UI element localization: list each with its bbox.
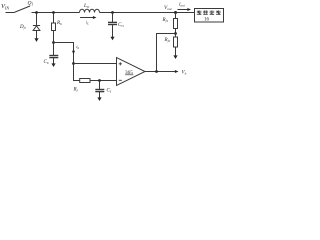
wire top rail left	[32, 12, 80, 14]
resistor Rb	[52, 13, 56, 43]
current arrow ib	[72, 51, 75, 55]
svg-text:CO: CO	[118, 23, 124, 28]
load box	[195, 9, 224, 23]
svg-text:LO: LO	[83, 4, 90, 9]
load box text: hand-drawn hanzi 输出负载 + 16	[197, 10, 221, 14]
resistor Rf1	[174, 13, 178, 34]
ground (under diode)	[34, 38, 38, 42]
svg-text:Cb: Cb	[44, 60, 49, 65]
transistor Q1 label	[28, 1, 34, 7]
wire branch Rb node to comparator input	[54, 43, 74, 64]
junction dot (divider tap on rail)	[174, 11, 177, 14]
diode Dfl	[33, 13, 40, 39]
junction node (Rb bottom)	[52, 41, 55, 44]
resistor Rb label	[56, 21, 62, 26]
transistor Q1 switch blade	[14, 6, 30, 13]
resistor Rf2	[174, 34, 178, 56]
capacitor Cb	[49, 43, 58, 64]
junction node (Cf tap)	[98, 79, 101, 82]
current arrow Iout	[178, 8, 192, 11]
ground (under Rf2)	[173, 55, 177, 59]
capacitor Cb label	[44, 60, 49, 65]
wire inverting input	[90, 80, 117, 82]
wire noninverting input	[74, 63, 117, 65]
wire top rail right	[100, 12, 196, 14]
junction node (divider mid)	[174, 32, 177, 35]
junction dot (Rb branch)	[52, 11, 55, 14]
node Vin label	[1, 3, 9, 11]
svg-text:16: 16	[204, 18, 209, 23]
inductor Lo label	[83, 4, 90, 9]
resistor Rf label	[73, 88, 79, 93]
svg-text:Rb: Rb	[56, 21, 62, 26]
op-amp 365	[117, 58, 146, 86]
junction dot (Co branch)	[111, 11, 114, 14]
svg-text:Vb: Vb	[182, 71, 187, 76]
svg-text:Dfl: Dfl	[19, 25, 26, 30]
junction dot (diode branch)	[35, 11, 38, 14]
wire down to Rf	[74, 64, 80, 81]
wire op-amp output	[145, 71, 176, 73]
diode Dfl label	[19, 25, 26, 30]
svg-text:Rf1: Rf1	[162, 18, 169, 23]
capacitor Cf	[95, 81, 104, 98]
svg-text:Rf2: Rf2	[164, 38, 171, 43]
node Vout label	[164, 5, 173, 11]
current arrow Vb	[175, 70, 179, 73]
junction node (output feedback tap)	[155, 70, 158, 73]
capacitor Co	[108, 13, 117, 38]
resistor Rf	[80, 79, 90, 83]
wire input stub	[6, 12, 15, 14]
current arrow iL	[80, 16, 97, 19]
wire feedback to divider	[157, 34, 176, 72]
node Vb label	[182, 71, 187, 76]
ground (under Co)	[110, 37, 114, 41]
resistor Rf2 label	[164, 38, 171, 43]
capacitor Co label	[118, 23, 124, 28]
ground (under Cb)	[51, 63, 55, 67]
junction node (plus input)	[72, 62, 75, 65]
ground (under Cf)	[97, 97, 101, 101]
capacitor Cf label	[107, 89, 112, 94]
resistor Rf1 label	[162, 18, 169, 23]
inductor Lo	[80, 9, 100, 12]
